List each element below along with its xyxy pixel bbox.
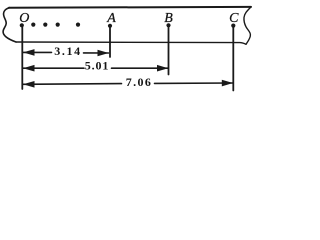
svg-text:B: B <box>164 11 173 26</box>
svg-text:O: O <box>19 11 29 26</box>
svg-text:C: C <box>229 11 239 26</box>
svg-text:A: A <box>106 11 116 26</box>
svg-text:3.14: 3.14 <box>54 44 81 58</box>
svg-text:7.06: 7.06 <box>126 75 153 89</box>
svg-text:5.01: 5.01 <box>85 59 110 73</box>
